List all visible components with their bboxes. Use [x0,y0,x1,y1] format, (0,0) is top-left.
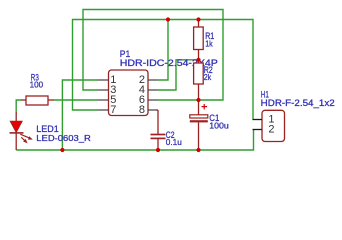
pin 3 stub P1 [98,89,109,91]
svg-text:0.1u: 0.1u [166,137,182,147]
svg-text:2: 2 [268,124,274,136]
resistor R2 [194,60,204,100]
svg-text:100u: 100u [209,121,229,131]
pin 8 stub P1 [148,109,157,111]
pin 6 stub P1 [148,99,158,101]
junction dot R1/R2/pin4 [196,58,200,62]
wire P1 pin2 to VCC rail [158,20,168,81]
svg-text:7: 7 [110,104,116,116]
wire P1 pin1 down to ground rail [62,80,97,150]
wire P1 pin4 to R1/R2 junction [158,60,199,90]
junction dot C2/ground [156,148,160,152]
svg-text:100: 100 [30,80,44,90]
connector H1 [262,110,285,141]
junction dot R1 top/VCC [196,17,200,21]
capacitor C2 [151,110,166,150]
pin 2 stub H1 [253,129,263,131]
svg-text:LED-0603_R: LED-0603_R [36,133,90,143]
LED LED1 [10,112,33,150]
resistor R3 [21,96,54,105]
pin 5 stub P1 [98,99,109,101]
wire P1 pin5 to R3 [54,99,98,101]
pin 1 stub H1 [253,119,263,121]
svg-text:8: 8 [139,104,145,116]
connector P1 body [109,70,149,116]
pin 2 stub P1 [148,79,158,81]
junction dot R2/C1/pin6 [196,98,200,102]
wire net VCC: P1 pin7 up, top rail y=19.5, down to H1 pin1 [73,20,254,120]
resistor R1 [194,20,204,60]
junction dot pin2/VCC [166,17,170,21]
svg-text:HDR-F-2.54_1x2: HDR-F-2.54_1x2 [261,97,335,108]
wire ground rail y=150 to H1 pin2 [16,130,253,151]
wire R3 left to LED1 anode [16,100,21,113]
svg-text:2k: 2k [204,72,212,82]
svg-text:1k: 1k [205,38,213,48]
pin 4 stub P1 [148,89,158,91]
junction dot C1/ground [196,148,200,152]
capacitor C1 [190,100,208,150]
pin 1 stub P1 [98,79,109,81]
wire net pin3/pin6: P1 pin3 up, top rail y=9.5, down x=223 to pin6 row [83,10,223,101]
junction dot pin1/ground [60,148,64,152]
pin 7 stub P1 [98,109,109,111]
